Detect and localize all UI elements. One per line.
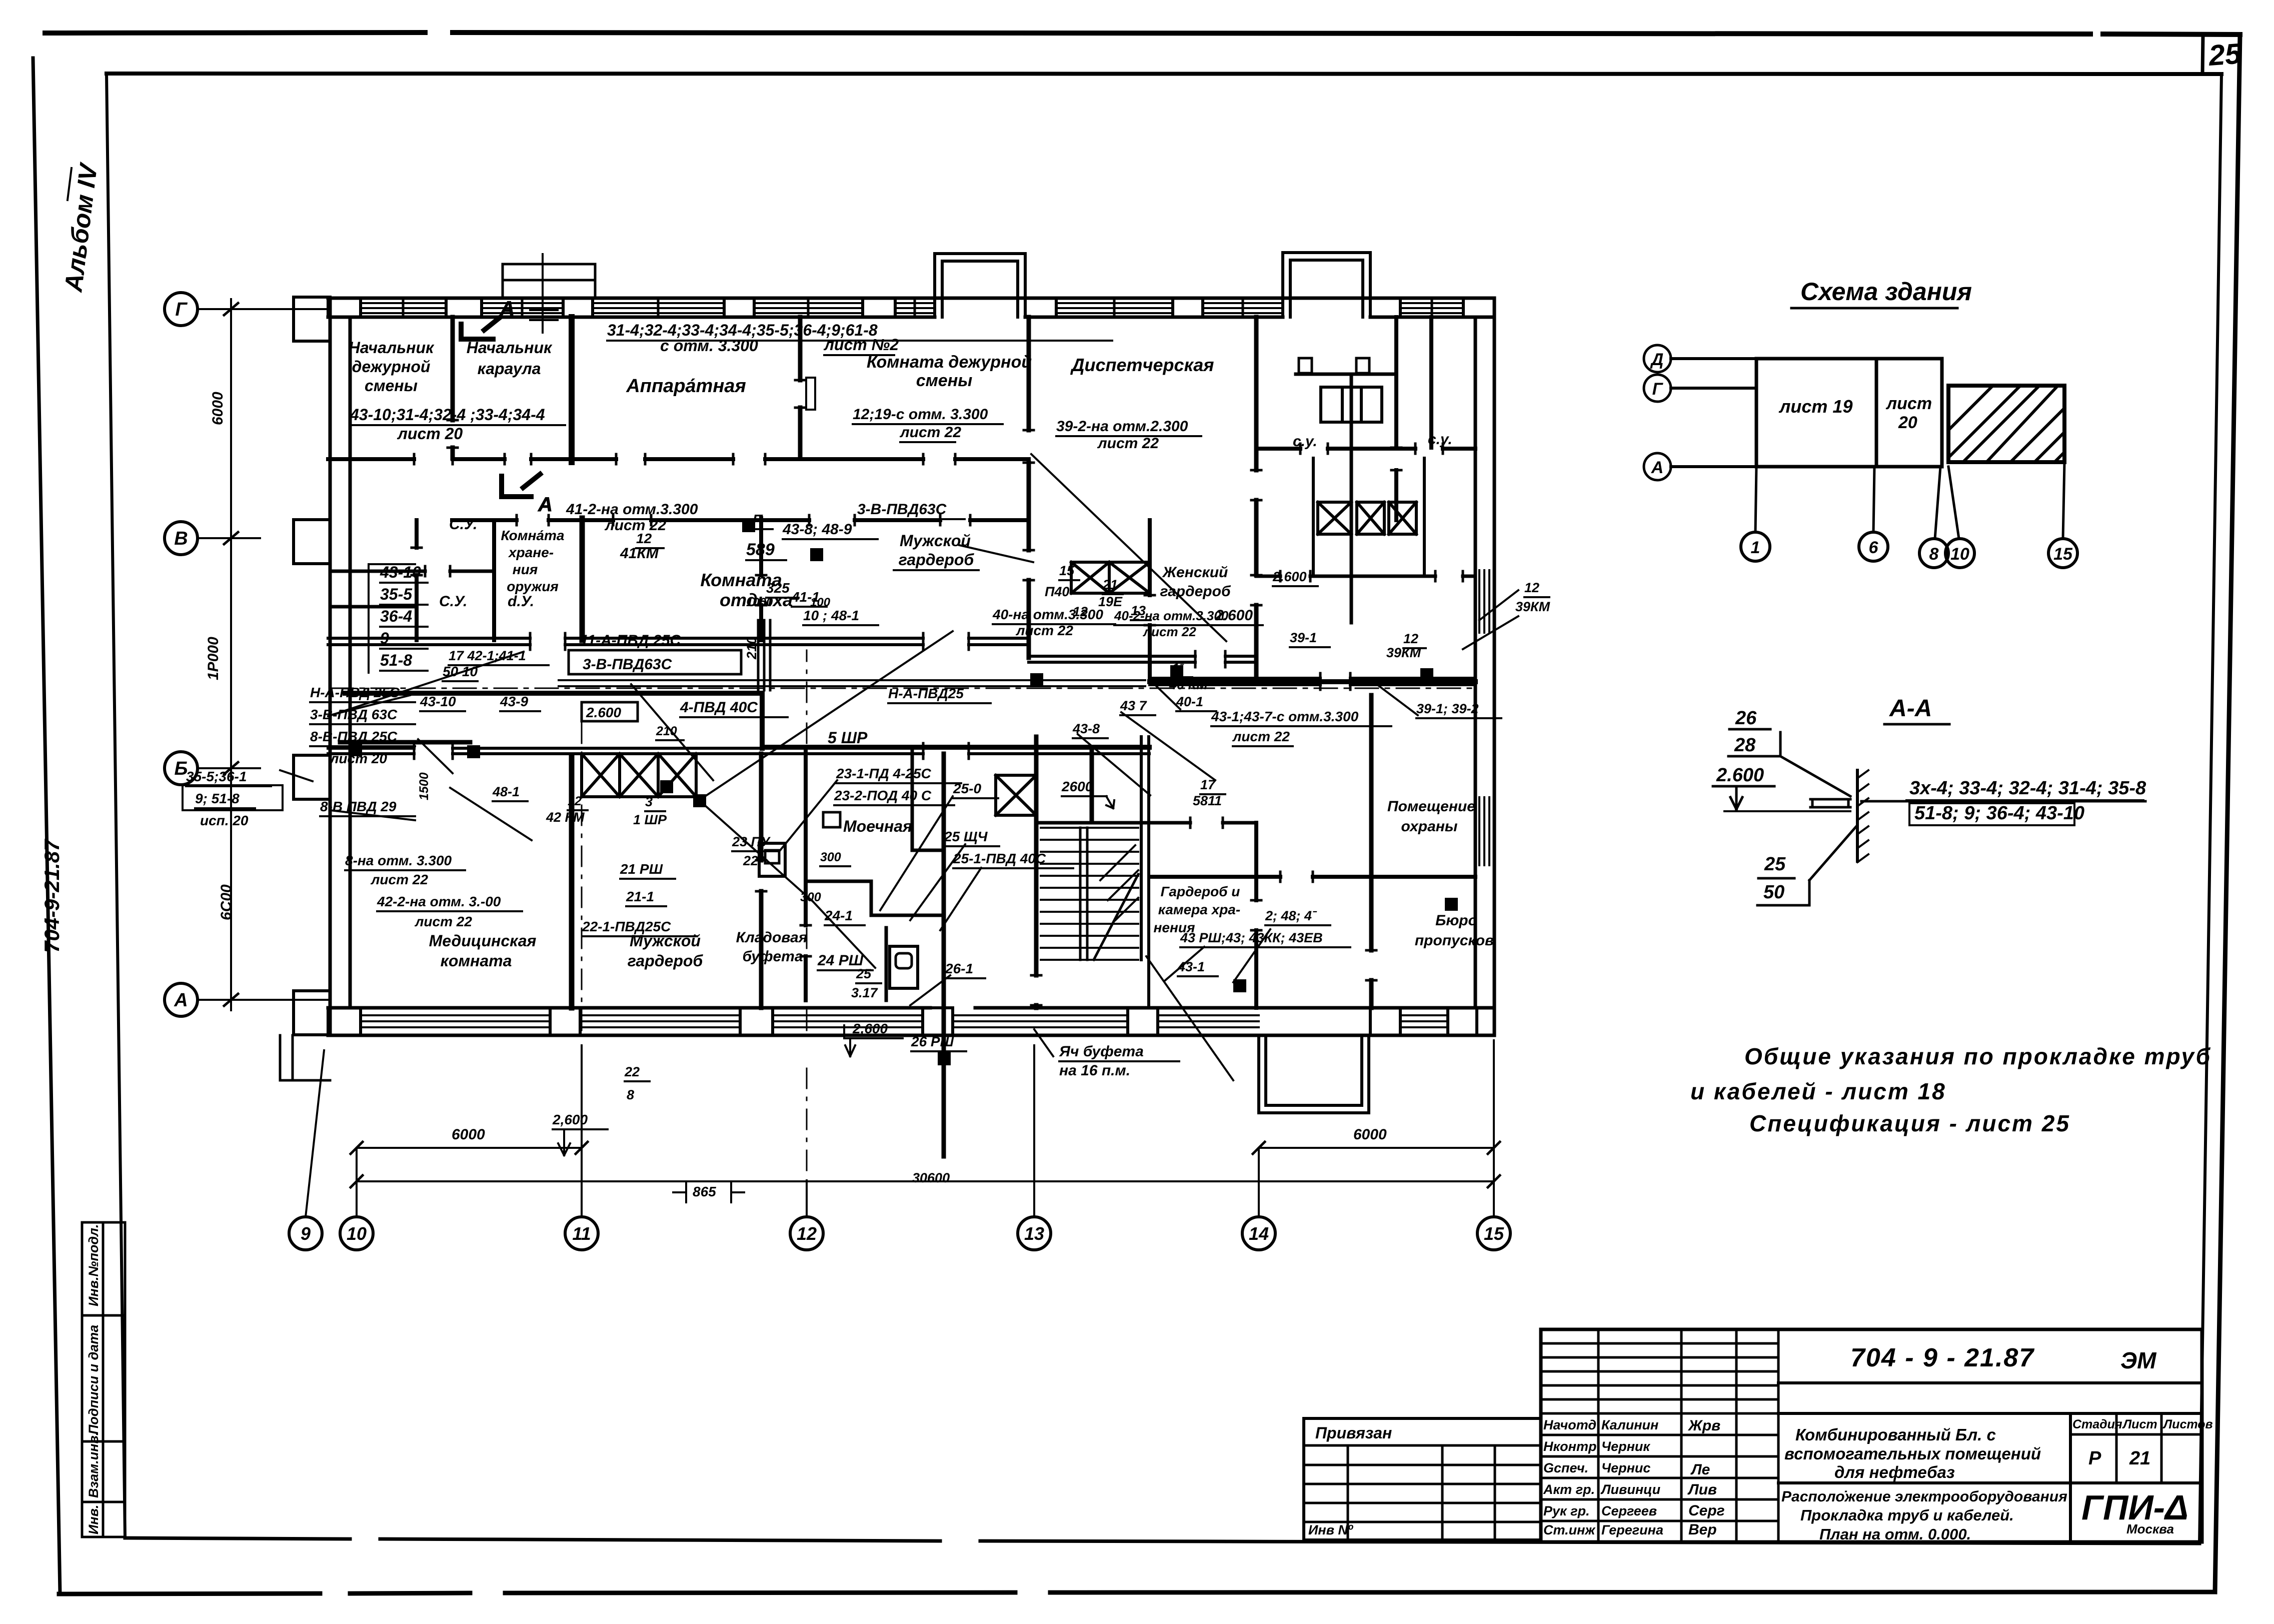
svg-text:14: 14 — [1249, 1223, 1269, 1244]
svg-text:с отм. 3.300: с отм. 3.300 — [660, 337, 758, 355]
main corridor south wall — [328, 747, 1149, 750]
svg-text:d.У.: d.У. — [508, 593, 534, 610]
bottom axis stems — [1755, 467, 1756, 532]
svg-text:4-ПВД 40С: 4-ПВД 40С — [680, 699, 758, 716]
svg-text:43-1: 43-1 — [1177, 959, 1205, 974]
svg-text:Комна́та: Комна́та — [501, 528, 565, 543]
svg-text:300: 300 — [800, 890, 821, 904]
svg-text:смены: смены — [365, 377, 418, 395]
svg-text:лист 20: лист 20 — [329, 751, 387, 766]
svg-text:лист 20: лист 20 — [397, 425, 463, 443]
svg-text:Бюро: Бюро — [1435, 912, 1477, 929]
inner frame bottom (dashy) — [125, 1538, 2199, 1543]
svg-text:2.600: 2.600 — [1716, 765, 1764, 786]
svg-text:25: 25 — [856, 966, 872, 981]
svg-text:Яч буфета: Яч буфета — [1059, 1043, 1144, 1060]
svg-text:42-2-на отм. 3.-00: 42-2-на отм. 3.-00 — [377, 894, 501, 909]
svg-text:2,600: 2,600 — [852, 1021, 888, 1036]
main corridor north wall — [328, 637, 1029, 640]
axis Г circle — [1644, 375, 1671, 402]
svg-text:Гардероб и: Гардероб и — [1161, 884, 1240, 899]
svg-text:Спецификация - лист 25: Спецификация - лист 25 — [1749, 1110, 2070, 1136]
svg-text:3: 3 — [645, 794, 653, 809]
svg-text:9; 51-8: 9; 51-8 — [195, 791, 240, 806]
svg-text:Н-А-ПВД25: Н-А-ПВД25 — [888, 686, 964, 701]
mojechnaya step walls — [806, 751, 943, 915]
title block main outline — [1541, 1329, 2202, 1542]
corridor cable trunk — [345, 682, 1475, 748]
svg-text:15: 15 — [1484, 1223, 1504, 1244]
svg-text:21 РШ: 21 РШ — [620, 861, 663, 877]
svg-text:12: 12 — [1403, 631, 1418, 646]
top annex 1 — [935, 254, 1025, 317]
svg-text:ния: ния — [513, 562, 538, 577]
svg-text:35-5;36-1: 35-5;36-1 — [186, 769, 247, 784]
svg-text:1Р000: 1Р000 — [205, 637, 222, 680]
svg-text:25: 25 — [2207, 38, 2242, 72]
svg-text:Моечная: Моечная — [843, 817, 912, 835]
svg-text:А: А — [538, 494, 553, 516]
outer border right — [2215, 35, 2240, 1592]
corridor axis dash-dot — [330, 688, 1475, 689]
svg-text:12: 12 — [568, 794, 582, 808]
thin top rows of signature grid — [1541, 1342, 1778, 1345]
svg-text:Д: Д — [1650, 350, 1664, 369]
exterior right wall — [1475, 298, 1494, 1035]
svg-text:и кабелей - лист 18: и кабелей - лист 18 — [1690, 1078, 1946, 1104]
svg-text:Р: Р — [2088, 1448, 2101, 1469]
svg-text:22: 22 — [743, 853, 758, 868]
schema division line — [1875, 359, 1878, 467]
svg-text:12;19-с отм. 3.300: 12;19-с отм. 3.300 — [853, 406, 988, 423]
svg-text:12: 12 — [1524, 580, 1539, 595]
svg-text:6000: 6000 — [210, 392, 226, 425]
svg-text:Взам.инв.: Взам.инв. — [86, 1432, 101, 1498]
svg-text:8: 8 — [627, 1087, 634, 1102]
inner frame top — [107, 74, 2221, 74]
line to labels — [1861, 800, 2145, 803]
svg-text:Комбинированный Бл. с: Комбинированный Бл. с — [1795, 1425, 1996, 1444]
svg-text:210: 210 — [656, 724, 677, 738]
svg-text:300: 300 — [820, 850, 841, 864]
svg-text:8-на отм. 3.300: 8-на отм. 3.300 — [345, 853, 452, 868]
svg-text:100: 100 — [810, 596, 831, 609]
exterior left wall — [330, 298, 350, 1035]
svg-text:22-1-ПВД25С: 22-1-ПВД25С — [582, 919, 671, 934]
svg-text:Инв.№подл.: Инв.№подл. — [86, 1224, 101, 1306]
svg-text:6000: 6000 — [1353, 1126, 1387, 1143]
row2 partitions — [415, 520, 419, 640]
svg-text:Стадия: Стадия — [2072, 1417, 2122, 1431]
svg-text:12: 12 — [636, 531, 652, 546]
svg-text:караула: караула — [478, 360, 541, 378]
svg-text:39-2-на отм.2.300: 39-2-на отм.2.300 — [1056, 418, 1188, 435]
svg-text:Москва: Москва — [2126, 1521, 2174, 1536]
svg-text:Подписи и дата: Подписи и дата — [86, 1325, 101, 1434]
svg-text:704-9-21.87: 704-9-21.87 — [40, 839, 64, 953]
svg-text:Листов: Листов — [2162, 1417, 2213, 1431]
svg-text:21: 21 — [1102, 577, 1118, 592]
svg-text:Диспетчерская: Диспетчерская — [1070, 355, 1214, 375]
svg-text:30600: 30600 — [912, 1170, 950, 1185]
svg-text:Черник: Черник — [1601, 1439, 1650, 1454]
svg-text:3.17: 3.17 — [851, 985, 879, 1000]
svg-text:Аппара́тная: Аппара́тная — [626, 376, 746, 397]
svg-text:3-В-ПВД 63С: 3-В-ПВД 63С — [310, 707, 398, 722]
outer border bottom — [59, 1592, 2215, 1594]
axis leader lines — [1671, 357, 1756, 360]
svg-text:12: 12 — [797, 1223, 817, 1244]
section mark A lower — [502, 474, 540, 497]
cable riser to buffet — [942, 754, 946, 1156]
svg-text:42 КМ: 42 КМ — [546, 810, 585, 825]
svg-text:Рук гр.: Рук гр. — [1543, 1503, 1590, 1518]
svg-text:8-В ПВД 29: 8-В ПВД 29 — [320, 799, 397, 814]
svg-text:А: А — [174, 990, 188, 1011]
left extension table (Привязан) — [1304, 1417, 1541, 1420]
right area: top band line — [1778, 1381, 2202, 1384]
svg-text:Ст.инж: Ст.инж — [1543, 1522, 1596, 1537]
SECTION: floor plan — [280, 253, 1518, 1156]
project/name cell divider — [1778, 1481, 2202, 1484]
svg-text:Инв.: Инв. — [86, 1504, 101, 1534]
svg-text:Мужской: Мужской — [900, 532, 971, 550]
svg-text:буфета: буфета — [742, 948, 803, 965]
svg-text:43 РШ;43; 43КК; 43ЕВ: 43 РШ;43; 43КК; 43ЕВ — [1180, 930, 1323, 945]
svg-text:43-9: 43-9 — [500, 694, 528, 709]
svg-text:10: 10 — [1950, 545, 1969, 564]
SECTION: A-A detail — [1713, 695, 2146, 905]
svg-text:39КМ: 39КМ — [1386, 645, 1421, 660]
svg-text:8: 8 — [1929, 545, 1939, 564]
svg-text:6С00: 6С00 — [218, 884, 235, 920]
svg-text:1: 1 — [1751, 538, 1760, 557]
svg-text:Общие указания по прокладке тр: Общие указания по прокладке труб — [1744, 1043, 2211, 1069]
svg-text:22: 22 — [624, 1064, 640, 1079]
svg-text:Вер: Вер — [1688, 1521, 1717, 1538]
svg-text:охраны: охраны — [1401, 818, 1457, 835]
svg-text:6: 6 — [1869, 538, 1879, 557]
svg-text:с.у.: с.у. — [1428, 431, 1452, 448]
svg-text:50 10: 50 10 — [443, 664, 478, 679]
svg-text:Ле: Ле — [1690, 1461, 1710, 1478]
leader 25/50 — [1758, 877, 1794, 880]
svg-text:26 РШ: 26 РШ — [911, 1034, 954, 1049]
svg-text:43-8: 43-8 — [1072, 721, 1100, 736]
svg-text:лист 22: лист 22 — [414, 914, 472, 929]
svg-text:С.У.: С.У. — [439, 593, 467, 610]
svg-text:11-А-ПВД 25С: 11-А-ПВД 25С — [580, 632, 681, 649]
svg-text:Г: Г — [175, 299, 188, 320]
svg-text:25: 25 — [1764, 854, 1786, 875]
axis stems — [306, 1040, 1494, 1217]
svg-text:комната: комната — [441, 952, 512, 970]
svg-text:2,600: 2,600 — [552, 1112, 588, 1127]
svg-text:С.У.: С.У. — [449, 516, 477, 533]
svg-text:пропусков: пропусков — [1415, 932, 1494, 949]
svg-text:39-1: 39-1 — [1290, 630, 1317, 645]
appliance boxes — [759, 843, 785, 876]
svg-text:для нефтебаз: для нефтебаз — [1834, 1463, 1955, 1481]
svg-text:А: А — [1651, 458, 1664, 477]
svg-text:Калинин: Калинин — [1601, 1417, 1658, 1432]
sanitary block wall — [1256, 447, 1475, 451]
svg-text:П40: П40 — [1045, 584, 1069, 599]
elevator shaft symbol — [1321, 387, 1382, 422]
svg-text:Помещение: Помещение — [1387, 798, 1475, 815]
svg-text:5 ШР: 5 ШР — [828, 729, 868, 747]
svg-text:Медицинская: Медицинская — [429, 932, 537, 950]
svg-text:Привязан: Привязан — [1315, 1424, 1392, 1442]
svg-text:Начальник: Начальник — [349, 339, 435, 357]
svg-text:Нконтр: Нконтр — [1543, 1439, 1596, 1454]
SECTION: titleblock — [1304, 1329, 2213, 1543]
svg-text:на 16 п.м.: на 16 п.м. — [1059, 1062, 1130, 1079]
svg-text:26: 26 — [1735, 708, 1757, 729]
left axis circles — [165, 293, 198, 326]
svg-text:1 ШР: 1 ШР — [633, 812, 667, 827]
outer border left — [33, 58, 60, 1593]
svg-text:2; 48; 4ˉ: 2; 48; 4ˉ — [1265, 908, 1317, 923]
svg-text:43-10: 43-10 — [380, 563, 421, 581]
svg-text:Начальник: Начальник — [467, 339, 553, 357]
svg-text:23-1-ПД 4-25С: 23-1-ПД 4-25С — [836, 766, 932, 781]
svg-text:Сергеев: Сергеев — [1601, 1503, 1657, 1518]
SECTION: notes — [1690, 1043, 2211, 1136]
section floor line — [1724, 810, 1850, 812]
svg-text:Ливинци: Ливинци — [1600, 1482, 1661, 1497]
svg-text:21: 21 — [2129, 1448, 2150, 1469]
svg-text:Лив: Лив — [1687, 1481, 1717, 1498]
svg-text:План на отм. 0.000.: План на отм. 0.000. — [1819, 1525, 1971, 1543]
SECTION: schema zdaniya — [1644, 278, 2077, 568]
svg-text:лист 22: лист 22 — [604, 517, 666, 534]
svg-text:3-В-ПВД63С: 3-В-ПВД63С — [583, 656, 673, 673]
svg-text:9: 9 — [301, 1223, 311, 1244]
svg-text:лист 22: лист 22 — [1015, 623, 1073, 638]
svg-text:2.600: 2.600 — [586, 705, 621, 720]
svg-text:17: 17 — [1200, 777, 1216, 792]
svg-text:51-8: 51-8 — [380, 651, 412, 669]
stadia table — [2069, 1413, 2072, 1542]
svg-text:210: 210 — [744, 637, 759, 660]
leader from 26/28 to wall — [1780, 756, 1850, 796]
svg-text:40-1: 40-1 — [1176, 694, 1203, 709]
svg-text:лист: лист — [1885, 394, 1932, 413]
inner frame right — [2199, 74, 2221, 1543]
svg-text:11: 11 — [572, 1223, 591, 1244]
section mark A upper — [461, 318, 499, 339]
svg-text:43-8; 48-9: 43-8; 48-9 — [782, 521, 852, 538]
signature rows — [1541, 1434, 1778, 1436]
svg-text:23 ПУ: 23 ПУ — [732, 834, 771, 849]
svg-text:Г: Г — [1652, 380, 1664, 399]
svg-text:5811: 5811 — [1193, 793, 1222, 808]
wall vertical with hatching — [1856, 770, 1859, 861]
svg-text:13: 13 — [1024, 1223, 1044, 1244]
exterior bottom wall — [328, 1008, 1494, 1035]
svg-text:3-В-ПВД63С: 3-В-ПВД63С — [857, 501, 947, 518]
schema labels — [1650, 350, 2073, 564]
svg-text:Н-А-ПВД 25С: Н-А-ПВД 25С — [310, 685, 400, 700]
svg-text:25 ЩЧ: 25 ЩЧ — [944, 829, 988, 844]
outer border top — [45, 33, 2240, 35]
svg-text:смены: смены — [916, 371, 973, 390]
svg-text:40 КМ: 40 КМ — [1169, 677, 1208, 692]
svg-text:6000: 6000 — [452, 1126, 485, 1143]
svg-text:8-В-ПВД 25С: 8-В-ПВД 25С — [310, 729, 398, 744]
exterior top wall — [328, 298, 1494, 317]
svg-text:21-1: 21-1 — [626, 889, 654, 904]
svg-text:10: 10 — [347, 1223, 367, 1244]
svg-text:А-А: А-А — [1889, 695, 1932, 722]
svg-text:9: 9 — [380, 629, 389, 647]
svg-text:25-1-ПВД 40С: 25-1-ПВД 40С — [953, 851, 1046, 866]
svg-text:40-на отм.3.300: 40-на отм.3.300 — [992, 607, 1103, 622]
svg-text:Серг: Серг — [1688, 1502, 1725, 1519]
svg-text:исп. 20: исп. 20 — [200, 813, 249, 828]
svg-text:28: 28 — [1734, 735, 1756, 756]
locker X-boxes — [1071, 562, 1109, 593]
bottom dimension lines — [357, 1148, 1494, 1181]
svg-text:Мужской: Мужской — [630, 932, 701, 950]
bottom porch — [1259, 1035, 1369, 1113]
svg-text:589: 589 — [746, 540, 775, 559]
margin table rotated texts — [86, 1224, 101, 1534]
svg-text:гардероб: гардероб — [899, 551, 975, 569]
svg-text:Прокладка труб и кабелей.: Прокладка труб и кабелей. — [1800, 1506, 2014, 1524]
svg-text:17 42-1;41-1: 17 42-1;41-1 — [449, 648, 526, 663]
svg-text:Герегина: Герегина — [1601, 1522, 1663, 1537]
leader lines — [328, 652, 524, 716]
svg-text:15: 15 — [2053, 545, 2073, 564]
svg-text:2.600: 2.600 — [1272, 569, 1307, 584]
svg-text:Жрв: Жрв — [1687, 1417, 1720, 1434]
bottom axis circles — [1741, 532, 1770, 561]
svg-text:лист №2: лист №2 — [823, 336, 899, 354]
sheet number box "25" — [2202, 35, 2203, 74]
top-left porch — [503, 264, 595, 298]
svg-text:Кладовая: Кладовая — [736, 929, 808, 946]
svg-text:3х-4; 33-4; 32-4; 31-4; 35-8: 3х-4; 33-4; 32-4; 31-4; 35-8 — [1909, 778, 2146, 799]
svg-text:Располо̇жение электрооборудова: Располо̇жение электрооборудования — [1781, 1488, 2067, 1505]
svg-text:вспомогательных помещений: вспомогательных помещений — [1784, 1444, 2041, 1463]
main corridor south wall right — [1150, 677, 1475, 680]
axis А circle — [1644, 453, 1671, 480]
left dimension line — [230, 299, 232, 1010]
svg-text:с.у.: с.у. — [1293, 433, 1317, 450]
svg-text:В: В — [174, 528, 188, 549]
top annex 2 — [1283, 253, 1370, 317]
svg-text:Женский: Женский — [1162, 564, 1228, 581]
svg-text:43-1;43-7-с отм.3.300: 43-1;43-7-с отм.3.300 — [1211, 709, 1359, 724]
svg-text:ЭМ: ЭМ — [2120, 1347, 2157, 1373]
svg-text:камера хра-: камера хра- — [1158, 902, 1240, 917]
svg-text:Начотд: Начотд — [1543, 1417, 1596, 1432]
upper corridor walls — [328, 457, 1029, 461]
staircase — [1041, 828, 1138, 960]
inner frame left — [107, 74, 125, 1538]
svg-text:43-10: 43-10 — [420, 694, 456, 709]
svg-text:лист 22: лист 22 — [1232, 729, 1290, 744]
svg-text:лист 22: лист 22 — [899, 424, 961, 441]
svg-text:лист 19: лист 19 — [1778, 396, 1852, 417]
svg-text:Комната: Комната — [700, 570, 782, 590]
axis Д circle — [1644, 345, 1671, 372]
cable riser at stair hall — [1090, 747, 1094, 821]
2600 arrow — [1730, 786, 1742, 809]
svg-text:704 - 9 - 21.87: 704 - 9 - 21.87 — [1850, 1343, 2034, 1372]
row3 partitions — [569, 755, 575, 1008]
svg-text:20: 20 — [1898, 413, 1917, 432]
svg-text:гардероб: гардероб — [1160, 583, 1231, 600]
svg-text:43 7: 43 7 — [1120, 698, 1148, 713]
bottom axis circles — [289, 1217, 322, 1250]
svg-text:хране-: хране- — [508, 545, 554, 560]
svg-text:10 ; 48-1: 10 ; 48-1 — [803, 608, 859, 623]
svg-text:лист 22: лист 22 — [370, 872, 428, 887]
svg-text:40-2-на отм.3.300: 40-2-на отм.3.300 — [1114, 608, 1229, 623]
margin table bottom-left — [82, 1222, 125, 1537]
svg-text:оружия: оружия — [507, 579, 559, 594]
signature grid verticals — [1597, 1329, 1600, 1542]
svg-text:25-0: 25-0 — [953, 781, 981, 796]
svg-text:26-1: 26-1 — [945, 961, 973, 976]
svg-text:24-1: 24-1 — [824, 908, 853, 923]
schema building rect — [1756, 359, 1942, 467]
svg-text:36-4: 36-4 — [380, 607, 412, 625]
svg-text:А: А — [500, 298, 515, 320]
svg-text:Схема здания: Схема здания — [1800, 278, 1972, 306]
svg-text:лист 22: лист 22 — [1097, 435, 1159, 452]
svg-text:39-1; 39-2: 39-1; 39-2 — [1416, 701, 1479, 716]
svg-text:35-5: 35-5 — [380, 585, 413, 603]
svg-text:Чернис: Чернис — [1601, 1460, 1650, 1475]
svg-text:50: 50 — [1763, 882, 1784, 903]
svg-text:отдыха: отдыха — [720, 590, 793, 610]
svg-text:39КМ: 39КМ — [1515, 599, 1550, 614]
svg-text:П: П — [753, 512, 763, 527]
row1 partition walls — [451, 317, 455, 458]
svg-text:51-8; 9; 36-4; 43-10: 51-8; 9; 36-4; 43-10 — [1914, 803, 2084, 824]
titleblock texts — [1308, 1343, 2213, 1543]
svg-text:41КМ: 41КМ — [620, 545, 659, 562]
svg-text:Лист: Лист — [2122, 1417, 2157, 1431]
svg-text:48-1: 48-1 — [492, 784, 520, 799]
svg-text:Gспеч.: Gспеч. — [1543, 1460, 1588, 1475]
svg-text:23-2-ПОД 40 С: 23-2-ПОД 40 С — [834, 788, 932, 803]
channel symbol — [1810, 799, 1850, 807]
svg-text:1ˉ: 1ˉ — [1172, 661, 1184, 675]
svg-text:лист 22: лист 22 — [1142, 624, 1196, 639]
svg-text:Инв Nº: Инв Nº — [1308, 1522, 1353, 1537]
svg-text:41-2-на отм.3.300: 41-2-на отм.3.300 — [566, 501, 698, 518]
svg-text:гардероб: гардероб — [628, 952, 704, 970]
svg-text:865: 865 — [693, 1184, 716, 1199]
svg-text:дежурной: дежурной — [352, 358, 431, 376]
svg-text:Акт гр.: Акт гр. — [1543, 1482, 1595, 1497]
svg-text:43-10;31-4;32-4 ;33-4;34-4: 43-10;31-4;32-4 ;33-4;34-4 — [350, 406, 545, 424]
svg-text:1500: 1500 — [417, 772, 431, 800]
svg-text:15: 15 — [1059, 563, 1075, 578]
hatched block — [1948, 386, 2064, 462]
svg-text:2600: 2600 — [1061, 779, 1093, 794]
